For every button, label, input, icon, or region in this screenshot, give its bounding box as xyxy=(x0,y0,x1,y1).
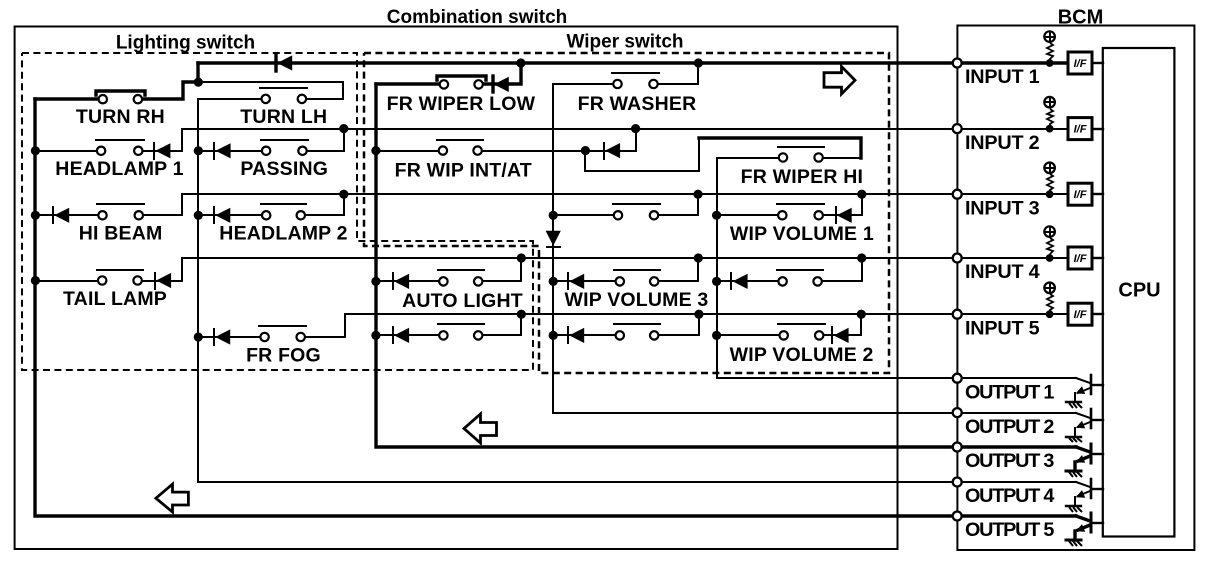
switch HEADLAMP 2 xyxy=(261,204,306,220)
wire FR FOG right riser to INPUT5 xyxy=(301,314,345,337)
junction INPUT2 / PASSING xyxy=(339,124,348,133)
diode on INPUT1 bus (bold) xyxy=(276,55,292,71)
wire wiper row5 mid riser to INPUT5 xyxy=(654,314,699,335)
wire WIP VOLUME 1 left xyxy=(717,214,782,216)
wire OUTPUT drive Q2 xyxy=(957,412,1076,414)
wire HEADLAMP1 left xyxy=(35,150,101,152)
diode FR WIPER LOW (bold) xyxy=(493,76,509,92)
svg-text:TURN LH: TURN LH xyxy=(240,106,327,128)
svg-text:HEADLAMP 1: HEADLAMP 1 xyxy=(55,158,183,180)
switch FR WIP INT/AT xyxy=(437,140,483,155)
junction V1 / FR FOG xyxy=(194,332,203,341)
wire TAIL LAMP left xyxy=(35,280,102,282)
diode HEADLAMP1 xyxy=(154,143,170,159)
diode HEADLAMP2 xyxy=(214,207,230,223)
junction INPUT5 / WIP VOLUME 2 xyxy=(857,310,866,319)
node INPUT 4 pin xyxy=(953,254,962,263)
wire FR FOG left xyxy=(198,336,265,338)
transistor Q4 with ground xyxy=(1066,479,1103,512)
wire vertical feed V1 + OUTPUT4 xyxy=(198,99,957,482)
wire wiper row5 left xyxy=(376,334,443,336)
diode wiper row5 left xyxy=(393,327,409,343)
arrow left (output bottom) xyxy=(156,484,189,512)
switch FR WIPER HI xyxy=(778,147,824,162)
switch FR WIPER LOW (closed) xyxy=(437,76,486,89)
switch WIP VOLUME 2 xyxy=(778,324,825,340)
wire wiper row5 mid left xyxy=(553,334,620,336)
diode FR FOG xyxy=(214,329,230,345)
wire HI BEAM right riser to INPUT3 xyxy=(139,194,182,215)
svg-text:FR FOG: FR FOG xyxy=(246,345,321,367)
svg-text:FR WIP INT/AT: FR WIP INT/AT xyxy=(395,159,532,181)
svg-text:OUTPUT 1: OUTPUT 1 xyxy=(965,381,1054,403)
switch wiper row5 mid xyxy=(614,324,660,340)
junction FR WIP INT-AT diode xyxy=(581,146,590,155)
wire OUTPUT drive Q1 xyxy=(957,377,1076,379)
svg-text:OUTPUT 5: OUTPUT 5 xyxy=(965,519,1054,541)
junction V1 / HEADLAMP2 xyxy=(194,211,203,220)
lighting switch dashed box xyxy=(22,53,533,370)
svg-text:WIP VOLUME 3: WIP VOLUME 3 xyxy=(565,289,709,311)
wire OUTPUT drive Q3 xyxy=(957,445,1076,448)
resistor pull-up + I/F INPUT 5 xyxy=(957,283,1103,326)
junction Vw1 / row4 right xyxy=(712,277,721,286)
junction V2 / row5 mid xyxy=(549,331,558,340)
wire OUTPUT drive Q5 xyxy=(957,514,1076,517)
wire wiper switch row3 mid left xyxy=(553,214,618,216)
wire INPUT4 xyxy=(182,257,957,259)
switch wiper row3 mid xyxy=(613,204,660,220)
junction bus / FR WIPER LOW xyxy=(516,58,525,67)
diode HI BEAM xyxy=(53,207,69,223)
svg-text:I/F: I/F xyxy=(1074,58,1087,70)
svg-text:TAIL LAMP: TAIL LAMP xyxy=(63,288,167,310)
wire PASSING right riser xyxy=(303,129,344,151)
wire FR WIP INT/AT left xyxy=(376,150,443,152)
svg-text:OUTPUT 2: OUTPUT 2 xyxy=(965,416,1054,438)
junction left feed / TAIL LAMP xyxy=(31,276,40,285)
wire TURN LH branch xyxy=(198,82,343,99)
wire AUTO LIGHT left xyxy=(376,280,443,282)
switch WIP VOLUME 3 xyxy=(614,270,660,286)
junction V2 / WIP VOLUME 3 xyxy=(549,277,558,286)
wire OUTPUT5 bus / left feed (bold) xyxy=(35,99,957,516)
node OUTPUT 5 pin xyxy=(953,512,962,521)
wire TURN RH right riser to INPUT1 bus (bold) xyxy=(138,63,198,99)
svg-text:FR WIPER LOW: FR WIPER LOW xyxy=(387,93,536,115)
wire OUTPUT drive Q4 xyxy=(957,481,1076,483)
diode AUTO LIGHT xyxy=(393,273,409,289)
diode TAIL LAMP xyxy=(155,273,171,289)
node OUTPUT 3 pin xyxy=(953,443,962,452)
resistor pull-up + I/F INPUT 1 xyxy=(957,31,1103,74)
resistor pull-up + I/F INPUT 2 xyxy=(957,97,1103,140)
svg-text:INPUT 5: INPUT 5 xyxy=(965,317,1040,339)
svg-text:Lighting switch: Lighting switch xyxy=(116,33,255,54)
switch wiper row4 right xyxy=(777,270,823,286)
wire FR WASHER left / vertical V2 + OUTPUT2 xyxy=(553,84,957,413)
wire wiper row4 right riser to INPUT4 xyxy=(818,258,862,281)
transistor Q1 with ground xyxy=(1066,375,1103,408)
svg-text:Wiper switch: Wiper switch xyxy=(566,32,683,53)
junction INPUT3 / wiper row3 mid xyxy=(693,190,702,199)
wire wiper row4 right left xyxy=(717,280,783,282)
diode WIP VOLUME 2 xyxy=(832,327,849,343)
transistor Q2 with ground xyxy=(1066,409,1103,442)
svg-text:Combination switch: Combination switch xyxy=(387,7,568,28)
svg-text:HEADLAMP 2: HEADLAMP 2 xyxy=(219,223,347,245)
wire AUTO LIGHT right riser to INPUT4 xyxy=(478,258,521,281)
switch AUTO LIGHT xyxy=(438,270,484,286)
node INPUT 3 pin xyxy=(953,190,962,199)
junction INPUT5 / row5 left xyxy=(517,310,526,319)
wire WIP VOLUME 2 left xyxy=(717,334,784,336)
diode PASSING xyxy=(214,143,231,159)
switch WIP VOLUME 1 xyxy=(777,204,824,220)
wire FR WIP INT/AT right xyxy=(478,150,585,152)
svg-text:WIP VOLUME 1: WIP VOLUME 1 xyxy=(730,223,874,245)
wire WIP VOLUME 1 right riser to INPUT3 xyxy=(819,194,862,215)
junction INPUT5 / row5 mid xyxy=(694,310,703,319)
svg-text:INPUT 4: INPUT 4 xyxy=(965,261,1040,283)
node INPUT 5 pin xyxy=(953,310,962,319)
wire WIP VOLUME 2 right riser to INPUT5 xyxy=(819,314,861,335)
CPU U1 xyxy=(1103,48,1175,537)
diode FR WIP INT/AT xyxy=(604,143,620,159)
wire HEADLAMP1 right riser to INPUT2 xyxy=(138,129,182,151)
junction Vw1 / WIP VOLUME 2 xyxy=(712,331,721,340)
junction TURN RH riser xyxy=(194,78,203,87)
svg-text:I/F: I/F xyxy=(1074,124,1087,136)
wire FR WIPER LOW right riser to bus (bold) xyxy=(479,63,521,84)
svg-text:I/F: I/F xyxy=(1074,253,1087,265)
junction left feed / HI BEAM xyxy=(31,211,40,220)
wire wiper row3 mid right riser to INPUT3 xyxy=(654,194,698,215)
svg-text:INPUT 2: INPUT 2 xyxy=(965,132,1040,154)
wire HI BEAM left xyxy=(35,214,103,216)
node OUTPUT 2 pin xyxy=(953,408,962,417)
svg-text:PASSING: PASSING xyxy=(240,158,328,180)
junction V-left / AUTO LIGHT xyxy=(371,277,380,286)
junction bus / FR WASHER xyxy=(694,58,703,67)
svg-text:OUTPUT 4: OUTPUT 4 xyxy=(965,485,1054,507)
wire INPUT3 xyxy=(182,193,957,195)
svg-text:CPU: CPU xyxy=(1118,280,1160,302)
svg-text:INPUT 3: INPUT 3 xyxy=(965,197,1040,219)
wire FR WIPER LOW left (bold) xyxy=(376,82,444,85)
junction V-left / FR WIP INT-AT xyxy=(371,146,380,155)
junction V1 / PASSING xyxy=(194,146,203,155)
svg-text:FR WASHER: FR WASHER xyxy=(578,93,697,115)
arrow left (output mid) xyxy=(464,414,497,443)
wire FR WASHER right riser to bus xyxy=(654,63,698,84)
svg-text:WIP VOLUME 2: WIP VOLUME 2 xyxy=(730,344,874,366)
junction Vw1 / WIP VOLUME 1 xyxy=(712,211,721,220)
diode WIP VOLUME 3 xyxy=(568,273,584,289)
switch HEADLAMP 1 xyxy=(96,140,144,155)
wiper switch dashed box xyxy=(364,53,889,373)
transistor Q3 with ground xyxy=(1066,444,1103,477)
resistor pull-up + I/F INPUT 3 xyxy=(957,163,1103,206)
wire INPUT5 xyxy=(345,313,957,315)
combination switch box xyxy=(15,27,898,550)
switch TAIL LAMP xyxy=(97,270,143,285)
switch wiper row5 left xyxy=(438,324,484,340)
diode on V2 vertical (down) xyxy=(546,231,561,247)
svg-text:AUTO LIGHT: AUTO LIGHT xyxy=(402,290,523,312)
wire PASSING left xyxy=(198,150,266,152)
wire FR WIPER HI loop (bold) xyxy=(699,138,861,158)
wire TURN LH left xyxy=(198,98,266,100)
node INPUT 1 pin xyxy=(953,59,962,68)
wire FR WIP INT/AT diode out riser to INPUT2 xyxy=(585,150,636,152)
wire WIP VOLUME 3 left xyxy=(553,280,620,282)
BCM box xyxy=(957,26,1194,551)
svg-text:TURN RH: TURN RH xyxy=(76,106,165,128)
junction INPUT3 / WIP VOLUME 1 xyxy=(857,190,866,199)
wire vertical feed V-left + OUTPUT3 (bold) xyxy=(376,84,957,447)
svg-text:I/F: I/F xyxy=(1074,309,1087,321)
svg-text:I/F: I/F xyxy=(1074,189,1087,201)
junction INPUT3 / HEADLAMP2 xyxy=(339,190,348,199)
wire HEADLAMP2 left xyxy=(198,214,266,216)
node OUTPUT 1 pin xyxy=(953,374,962,383)
wire HEADLAMP2 right riser xyxy=(301,194,344,215)
switch FR FOG xyxy=(259,326,306,341)
switch FR WASHER xyxy=(612,73,659,88)
wire TURN RH left (bold) xyxy=(35,97,103,100)
svg-text:FR WIPER HI: FR WIPER HI xyxy=(741,166,863,188)
wire FR WIPER HI right xyxy=(819,157,861,159)
switch PASSING xyxy=(261,140,308,155)
junction INPUT4 / row4 right xyxy=(857,253,866,262)
junction V2 / row3 mid xyxy=(549,211,558,220)
switch TURN LH xyxy=(260,88,307,103)
wire FR WIPER HI feed loop lower xyxy=(585,138,699,171)
switch TURN RH (closed) xyxy=(96,91,145,103)
diode wiper row5 mid xyxy=(568,327,584,343)
diode wiper row4 right xyxy=(731,273,748,289)
wire WIP VOLUME 3 right riser to INPUT4 xyxy=(654,258,698,281)
svg-text:OUTPUT 3: OUTPUT 3 xyxy=(965,450,1054,472)
wire wiper row5 left riser to INPUT5 xyxy=(478,314,521,335)
resistor pull-up + I/F INPUT 4 xyxy=(957,226,1103,269)
diode WIP VOLUME 1 xyxy=(836,207,852,223)
junction V-left / row5 left xyxy=(371,331,380,340)
svg-text:BCM: BCM xyxy=(1058,7,1104,29)
junction INPUT4 / WIP VOLUME 3 xyxy=(694,253,703,262)
svg-text:INPUT 1: INPUT 1 xyxy=(965,66,1040,88)
junction left feed / HEADLAMP1 xyxy=(31,146,40,155)
switch HI BEAM xyxy=(97,204,144,220)
svg-text:HI BEAM: HI BEAM xyxy=(79,223,163,245)
node OUTPUT 4 pin xyxy=(953,478,962,487)
transistor Q5 with ground xyxy=(1066,513,1103,546)
wire INPUT2 xyxy=(182,128,957,130)
wire INPUT1 bus (bold) xyxy=(198,61,957,64)
arrow right (to BCM input) xyxy=(824,67,855,95)
wire FR WIPER HI left / vertical Vw1 + OUTPUT1 xyxy=(717,158,957,378)
node INPUT 2 pin xyxy=(953,124,962,133)
junction INPUT4 / AUTO LIGHT xyxy=(517,253,526,262)
wire TAIL LAMP right riser to INPUT4 xyxy=(138,258,182,281)
junction INPUT2 / FR WIP INT-AT xyxy=(631,124,640,133)
